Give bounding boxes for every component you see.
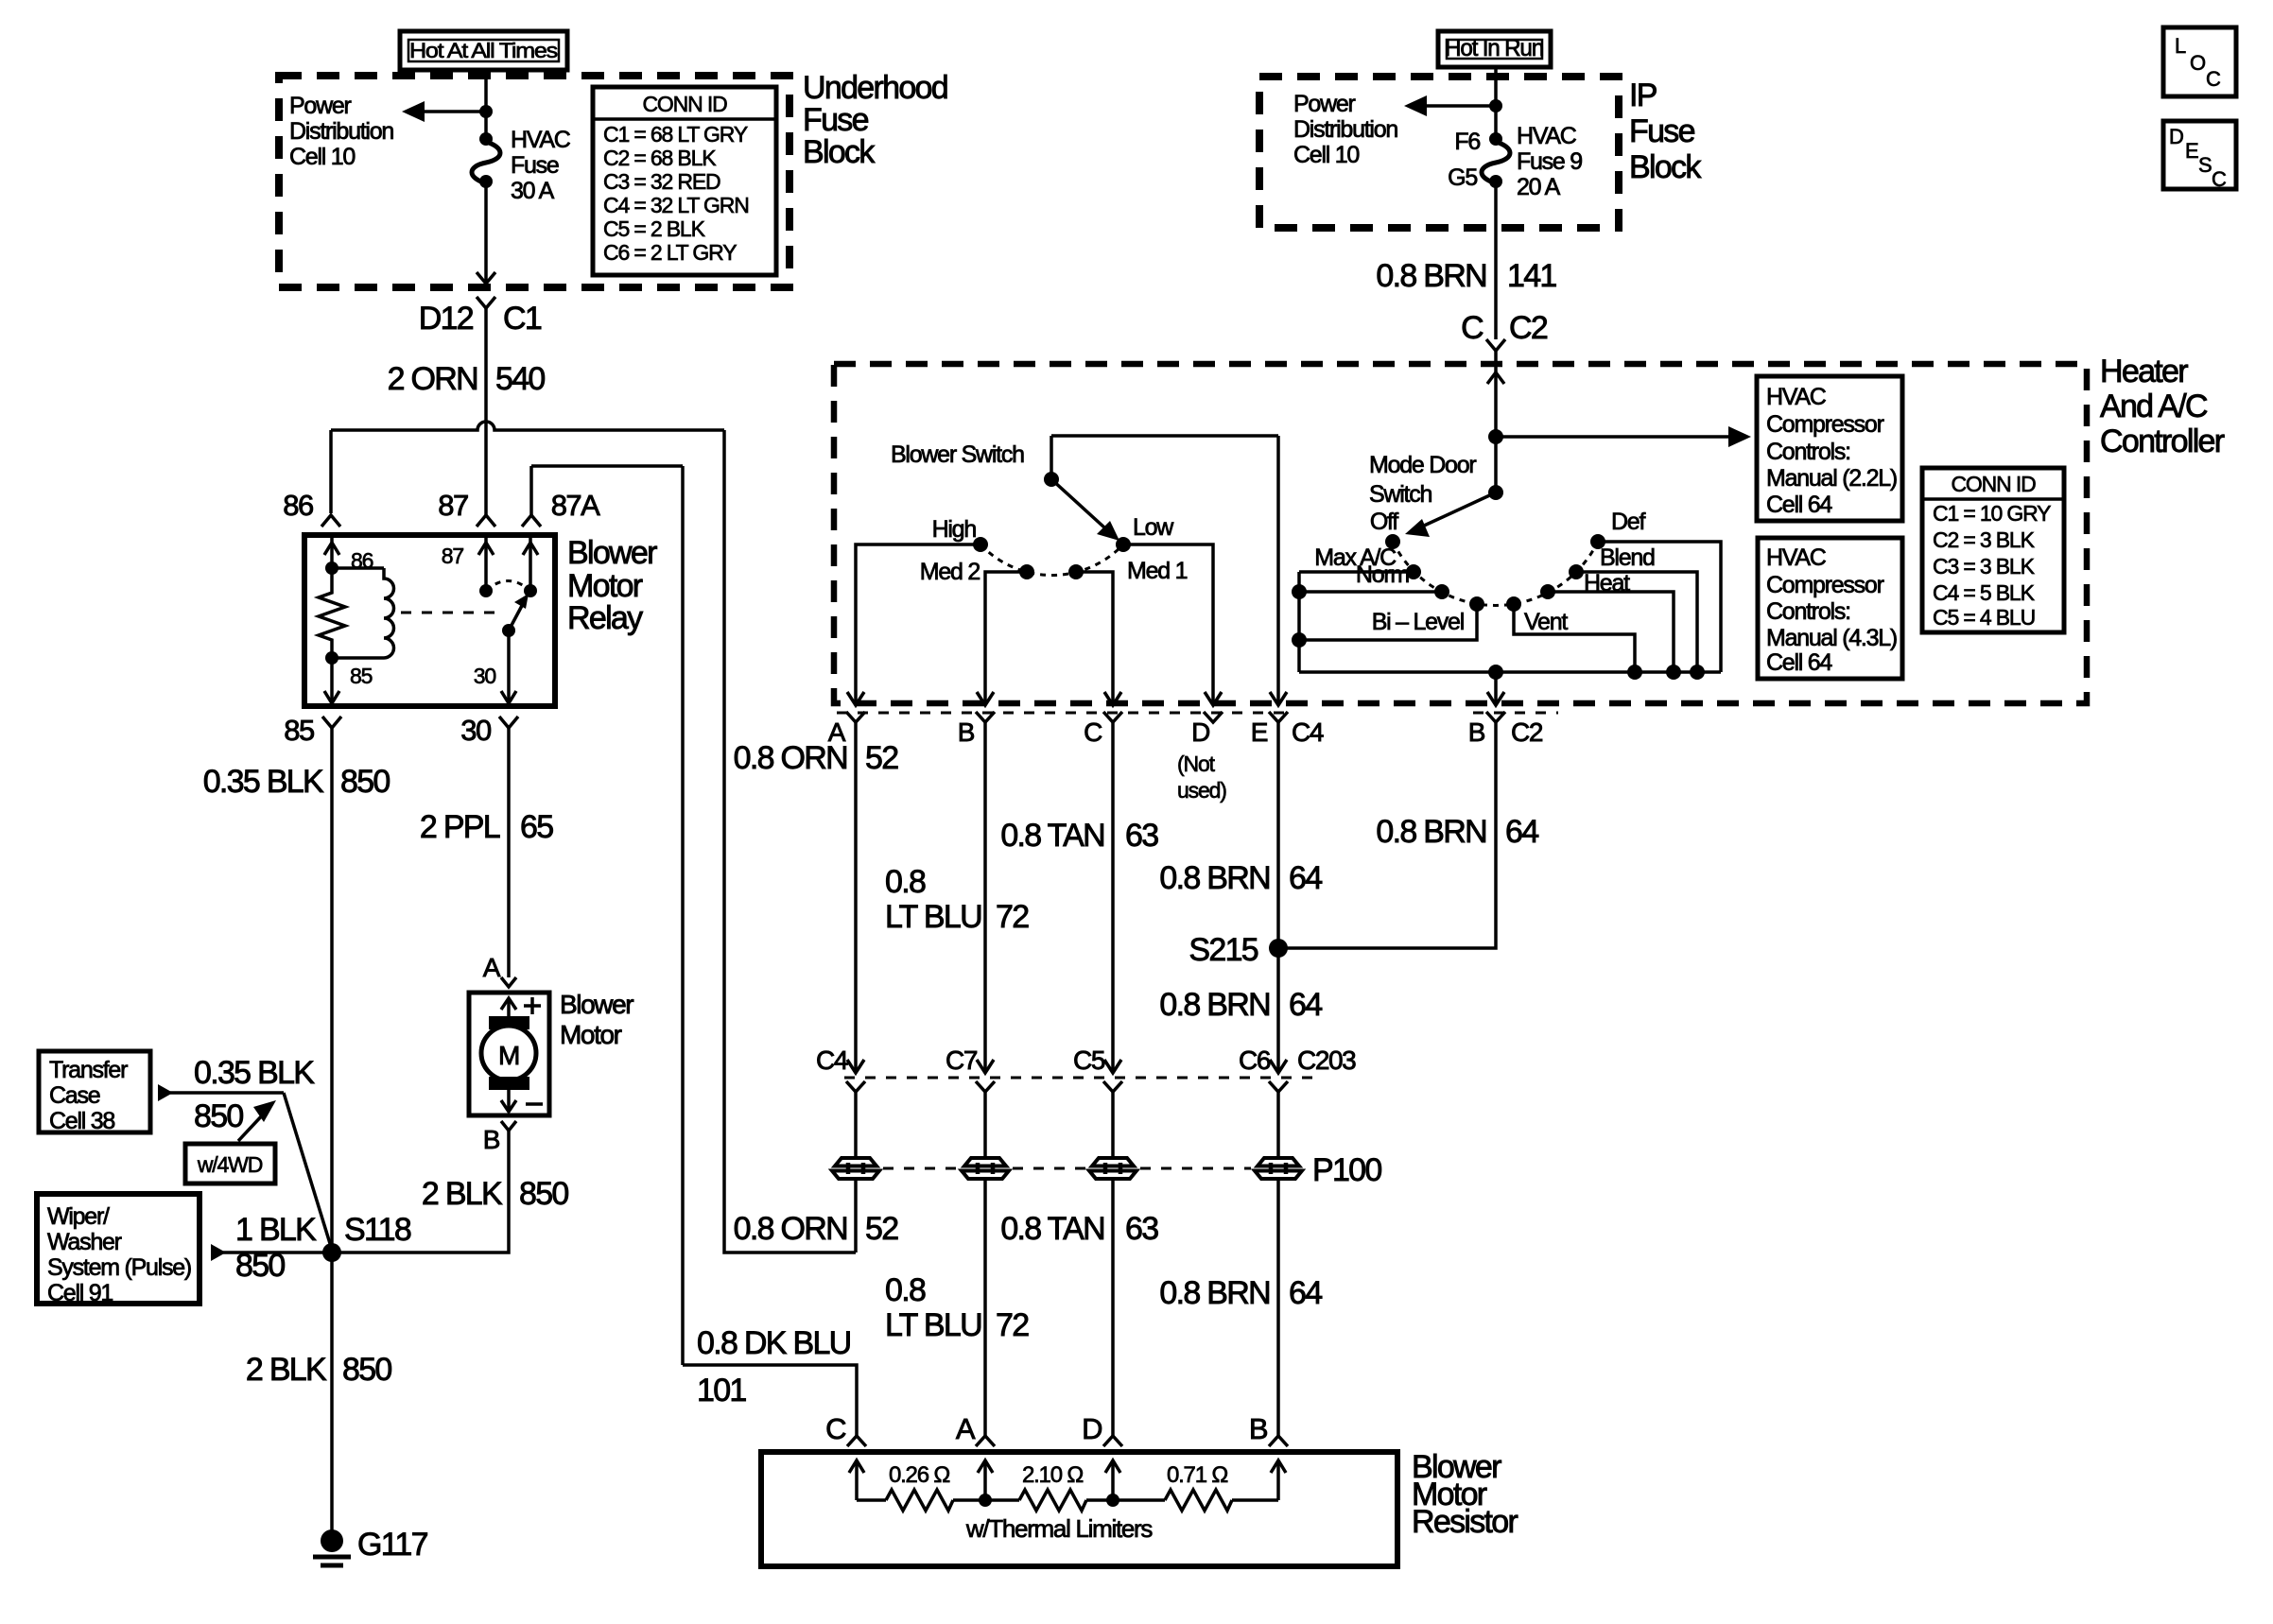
heater and A/C controller dashed box	[834, 364, 2087, 703]
svg-text:0.8 ORN: 0.8 ORN	[734, 740, 847, 776]
blower switch contact Med 1	[1068, 564, 1084, 579]
junction dot A	[979, 1494, 992, 1507]
svg-text:Med 1: Med 1	[1127, 558, 1188, 584]
svg-text:C5 = 4 BLU: C5 = 4 BLU	[1933, 605, 2035, 630]
resistor pin D arrow	[1105, 1460, 1120, 1500]
inline connector P100 at B column	[962, 1158, 1009, 1179]
svg-text:LT BLU: LT BLU	[885, 1307, 981, 1343]
wire 2 ORN 540	[388, 308, 546, 515]
svg-text:Case: Case	[49, 1082, 100, 1109]
svg-text:850: 850	[519, 1176, 568, 1212]
svg-text:0.8 BRN: 0.8 BRN	[1159, 860, 1270, 896]
wire 2 PPL 65	[420, 728, 553, 977]
svg-text:0.8 TAN: 0.8 TAN	[1000, 818, 1104, 854]
svg-text:0.8 BRN: 0.8 BRN	[1159, 1275, 1270, 1311]
svg-text:Motor: Motor	[560, 1020, 622, 1049]
motor minus terminal	[501, 1090, 543, 1112]
fuse F HVAC 30A	[472, 127, 571, 204]
wire 0.35 BLK 850	[203, 728, 390, 1253]
svg-text:C2 = 68 BLK: C2 = 68 BLK	[603, 146, 717, 170]
mode door contact Bi-Level	[1469, 596, 1484, 612]
relay pin 85 stub	[324, 651, 373, 703]
svg-text:S215: S215	[1189, 932, 1258, 968]
svg-text:Washer: Washer	[47, 1229, 122, 1255]
svg-text:0.8 BRN: 0.8 BRN	[1376, 814, 1486, 850]
wire 0.8 TAN 63 from pin C	[1000, 722, 1158, 1071]
svg-text:C4: C4	[1292, 717, 1324, 747]
blower switch contact Med 2	[1019, 564, 1034, 579]
wire fuse to connector D12	[477, 181, 495, 284]
svg-text:Def: Def	[1611, 509, 1645, 535]
svg-text:A: A	[483, 953, 501, 982]
wire down to relay pin 86	[329, 430, 333, 513]
relay pin 30 stub	[474, 631, 516, 703]
svg-text:Med 2: Med 2	[920, 559, 980, 585]
svg-text:Hot In Run: Hot In Run	[1445, 35, 1543, 61]
mode door dashed arc	[1393, 542, 1598, 605]
label Blower Motor	[560, 990, 633, 1049]
svg-text:B: B	[1468, 717, 1485, 747]
wire Med 2 to pin B	[977, 572, 1027, 705]
svg-text:72: 72	[996, 899, 1029, 935]
transfer case box	[39, 1051, 150, 1134]
blower switch dashed arc	[980, 544, 1123, 575]
svg-text:Distribution: Distribution	[1293, 116, 1397, 143]
mode door contact Heat	[1540, 584, 1555, 599]
wire E column below P100 to resistor B	[1159, 1179, 1322, 1437]
svg-text:63: 63	[1125, 1211, 1158, 1247]
svg-text:B: B	[483, 1125, 500, 1154]
mode door contact Vent	[1506, 596, 1521, 612]
connector C4 thin dashed line	[837, 712, 1293, 715]
connector chevron below relay 30	[499, 717, 518, 728]
svg-text:C6 = 2 LT GRY: C6 = 2 LT GRY	[603, 240, 737, 265]
wire B column below P100 to resistor A	[885, 1179, 1029, 1437]
svg-text:Controls:: Controls:	[1766, 439, 1850, 465]
label Heater And A/C Controller	[2100, 354, 2225, 459]
blower switch rotor blade	[1044, 472, 1119, 541]
svg-text:30: 30	[460, 714, 492, 747]
mode door left rail	[1297, 572, 1301, 672]
ground G117	[313, 1527, 428, 1565]
svg-text:Fuse: Fuse	[1629, 113, 1695, 149]
svg-text:87A: 87A	[551, 489, 600, 522]
LOC box	[2163, 27, 2236, 96]
svg-text:Resistor: Resistor	[1412, 1504, 1518, 1540]
svg-text:C: C	[2212, 167, 2227, 191]
svg-text:C3 = 32 RED: C3 = 32 RED	[603, 169, 720, 194]
svg-text:(Not: (Not	[1177, 752, 1216, 776]
svg-text:C203: C203	[1297, 1045, 1356, 1075]
svg-text:High: High	[932, 516, 977, 543]
svg-text:C1 = 10 GRY: C1 = 10 GRY	[1933, 501, 2051, 526]
relay coil resistor	[319, 568, 345, 658]
svg-text:Compressor: Compressor	[1766, 411, 1884, 438]
svg-text:HVAC: HVAC	[1517, 123, 1577, 149]
svg-text:C2: C2	[1509, 310, 1548, 346]
wire Bi-Level to rail	[1292, 604, 1477, 648]
connector chevron motor B	[501, 1121, 516, 1131]
svg-text:Wiper/: Wiper/	[47, 1203, 110, 1230]
wire 0.35 BLK 850 from transfer case	[158, 1055, 332, 1250]
svg-text:Blend: Blend	[1600, 544, 1655, 571]
svg-text:C4: C4	[816, 1045, 848, 1075]
svg-text:C6: C6	[1239, 1045, 1271, 1075]
svg-text:Cell 91: Cell 91	[47, 1280, 113, 1306]
connector C C2	[1461, 310, 1548, 437]
svg-text:IP: IP	[1629, 78, 1657, 113]
inline connector P100 at A column	[832, 1158, 879, 1179]
svg-text:C: C	[1084, 717, 1102, 747]
svg-text:0.8 DK BLU: 0.8 DK BLU	[697, 1325, 851, 1361]
svg-text:63: 63	[1125, 818, 1158, 854]
wire 0.8 BRN 64 from pin B C2 to S215	[1278, 722, 1538, 948]
svg-text:Off: Off	[1370, 509, 1398, 535]
svg-text:C5: C5	[1073, 1045, 1105, 1075]
svg-text:850: 850	[194, 1098, 243, 1134]
resistor element 2.10 ohm	[985, 1462, 1113, 1511]
mode door rotor blade	[1405, 485, 1503, 537]
connector chevron below relay 85	[322, 717, 341, 728]
pin D bracket	[1204, 712, 1223, 722]
svg-text:1 BLK: 1 BLK	[235, 1212, 317, 1248]
svg-text:20 A: 20 A	[1517, 174, 1561, 200]
motor commutator bottom	[489, 1077, 529, 1090]
svg-text:C2 = 3 BLK: C2 = 3 BLK	[1933, 527, 2036, 552]
connector chevron motor A	[501, 977, 516, 987]
svg-text:87: 87	[438, 489, 468, 522]
wire High to pin A	[847, 544, 980, 705]
connector C5 arrow and bracket	[1073, 1045, 1122, 1159]
wire Norm to rail	[1292, 584, 1442, 599]
svg-text:0.26 Ω: 0.26 Ω	[889, 1462, 949, 1488]
resistor element 0.71 ohm	[1113, 1462, 1278, 1511]
power label Hot In Run	[1438, 31, 1551, 67]
svg-text:0.35 BLK: 0.35 BLK	[194, 1055, 315, 1091]
mode door contact Def	[1590, 534, 1605, 549]
svg-text:Fuse: Fuse	[803, 102, 869, 138]
svg-text:C1: C1	[503, 301, 542, 337]
blower motor resistor box	[761, 1452, 1397, 1566]
svg-text:Mode Door: Mode Door	[1369, 452, 1476, 478]
wire Blend to bus	[1576, 572, 1705, 680]
connector chevron relay 87A	[522, 515, 541, 527]
svg-text:65: 65	[520, 809, 553, 845]
junction dot D	[1106, 1494, 1119, 1507]
wire 87A up and over	[531, 466, 683, 1365]
svg-text:Power: Power	[1293, 91, 1356, 117]
svg-text:C4 = 5 BLK: C4 = 5 BLK	[1933, 580, 2036, 605]
svg-text:B: B	[958, 717, 975, 747]
svg-text:0.8 ORN: 0.8 ORN	[734, 1211, 847, 1247]
svg-text:Cell 64: Cell 64	[1766, 649, 1832, 676]
svg-text:CONN ID: CONN ID	[1951, 472, 2036, 496]
wire 0.8 BRN 141	[1376, 181, 1556, 339]
wire from Hot At All Times to fuse	[484, 70, 488, 139]
connector chevron resistor D	[1103, 1436, 1122, 1446]
wire Low to pin D	[1123, 544, 1222, 705]
wire bus to pin B	[1487, 665, 1504, 705]
svg-text:HVAC: HVAC	[511, 127, 571, 153]
svg-text:used): used)	[1177, 778, 1226, 803]
svg-text:C7: C7	[946, 1045, 978, 1075]
svg-text:2 BLK: 2 BLK	[422, 1176, 503, 1212]
svg-text:O: O	[2190, 51, 2206, 75]
svg-text:D12: D12	[419, 301, 474, 337]
svg-text:Cell 64: Cell 64	[1766, 492, 1832, 518]
svg-text:850: 850	[340, 764, 390, 800]
svg-text:Block: Block	[1629, 149, 1702, 185]
svg-text:72: 72	[996, 1307, 1029, 1343]
relay switch blade	[502, 594, 529, 637]
svg-text:Blower: Blower	[567, 535, 657, 571]
svg-text:D: D	[1191, 717, 1209, 747]
HVAC compressor controls 2.2L box	[1757, 376, 1902, 521]
wire mode door feed and HVAC branch	[1488, 426, 1751, 492]
connector D12 C1	[419, 297, 542, 337]
svg-text:0.71 Ω: 0.71 Ω	[1167, 1462, 1227, 1488]
wire 0.8 BRN 64 from pin E	[1159, 722, 1322, 1071]
svg-text:0.35 BLK: 0.35 BLK	[203, 764, 324, 800]
svg-text:G117: G117	[357, 1527, 428, 1563]
svg-text:S118: S118	[344, 1212, 411, 1248]
svg-text:Cell 10: Cell 10	[289, 144, 355, 170]
svg-text:w/Thermal Limiters: w/Thermal Limiters	[965, 1514, 1153, 1543]
svg-text:C: C	[2206, 67, 2221, 91]
svg-text:Manual (4.3L): Manual (4.3L)	[1766, 625, 1897, 651]
relay pin 87A stub	[523, 537, 538, 597]
svg-text:C1 = 68 LT GRY: C1 = 68 LT GRY	[603, 122, 748, 147]
relay pin 87 stub	[442, 537, 494, 597]
svg-text:Controller: Controller	[2100, 423, 2225, 459]
svg-text:Hot At All Times: Hot At All Times	[409, 39, 558, 62]
svg-text:Blower Switch: Blower Switch	[891, 441, 1024, 468]
wire Med 1 to pin C	[1076, 572, 1121, 705]
node Power Distribution Cell 10	[289, 93, 393, 170]
wiper washer box	[37, 1194, 200, 1306]
svg-text:S: S	[2198, 153, 2212, 177]
svg-text:E: E	[2185, 139, 2198, 163]
svg-text:87: 87	[442, 544, 464, 568]
svg-text:C: C	[825, 1412, 846, 1445]
svg-text:0.8 BRN: 0.8 BRN	[1159, 987, 1270, 1023]
svg-text:64: 64	[1289, 860, 1322, 896]
label Mode Door Switch	[1369, 452, 1476, 508]
svg-text:101: 101	[697, 1373, 746, 1408]
wire Def to bus	[1598, 542, 1721, 672]
svg-text:C2: C2	[1511, 717, 1543, 747]
mode door bottom bus	[1299, 670, 1721, 674]
svg-text:Fuse: Fuse	[511, 152, 559, 179]
svg-text:E: E	[1251, 717, 1268, 747]
mode door contact Off	[1385, 534, 1400, 549]
inline connector P100 at C column	[1089, 1158, 1136, 1179]
relay K Blower Motor Relay box	[304, 535, 555, 706]
svg-text:Block: Block	[803, 134, 876, 170]
svg-text:Vent: Vent	[1524, 609, 1568, 635]
svg-text:B: B	[1249, 1412, 1268, 1445]
connector chevron relay 86	[321, 515, 340, 527]
svg-text:C3 = 3 BLK: C3 = 3 BLK	[1933, 554, 2036, 579]
wire A column below P100 to orn corner	[724, 430, 898, 1253]
resistor pin A arrow	[978, 1460, 993, 1500]
svg-text:And A/C: And A/C	[2100, 389, 2208, 424]
connector C7 arrow and bracket	[946, 1045, 995, 1159]
w/4WD tag	[185, 1100, 276, 1183]
wire 0.8 ORN 52 from pin A	[734, 722, 899, 1071]
svg-text:30 A: 30 A	[511, 178, 555, 204]
conn id table heater	[1922, 468, 2064, 632]
connector row C203 dashed line	[844, 1077, 1322, 1080]
wire 0.8 LT BLU 72 from pin B	[885, 722, 1029, 1071]
svg-text:Underhood: Underhood	[803, 70, 947, 106]
svg-text:Switch: Switch	[1369, 481, 1431, 508]
svg-text:A: A	[956, 1412, 976, 1445]
svg-text:C5 = 2 BLK: C5 = 2 BLK	[603, 216, 706, 241]
pin E bracket	[1269, 712, 1288, 722]
splice S118	[322, 1212, 411, 1262]
svg-text:540: 540	[495, 361, 545, 397]
power label Hot At All Times	[400, 31, 567, 70]
svg-text:0.8: 0.8	[885, 1272, 926, 1308]
relay pin 86 stub	[324, 537, 373, 575]
wire Vent to bus	[1514, 604, 1642, 680]
IP fuse block dashed box	[1259, 77, 1619, 228]
svg-text:0.8: 0.8	[885, 864, 926, 900]
wire 0.8 DK BLU 101	[683, 1325, 857, 1437]
svg-text:F6: F6	[1454, 129, 1480, 155]
svg-text:Compressor: Compressor	[1766, 572, 1884, 598]
svg-text:Manual (2.2L): Manual (2.2L)	[1766, 465, 1897, 492]
svg-text:Heater: Heater	[2100, 354, 2188, 389]
svg-text:2 ORN: 2 ORN	[388, 361, 477, 397]
pin B bracket	[976, 712, 995, 722]
motor plus terminal	[501, 997, 541, 1016]
svg-text:Motor: Motor	[567, 568, 643, 604]
wire horizontal with hop to relay 86 and coil feed	[331, 422, 724, 430]
node Power Distribution Cell 10 (IP)	[1293, 91, 1397, 168]
relay coil	[332, 568, 394, 658]
label Underhood Fuse Block	[803, 70, 947, 170]
svg-text:M: M	[498, 1041, 519, 1070]
wire Max A/C to rail	[1299, 570, 1414, 574]
svg-text:Power: Power	[289, 93, 352, 119]
svg-text:Low: Low	[1133, 514, 1174, 541]
svg-text:Distribution: Distribution	[289, 118, 393, 145]
svg-text:64: 64	[1289, 987, 1322, 1023]
svg-text:Norm: Norm	[1356, 561, 1410, 588]
resistor pin B arrow	[1271, 1460, 1286, 1500]
wire 2 BLK 850 from motor B	[332, 1131, 568, 1253]
resistor pin C arrow	[849, 1460, 864, 1500]
conn id table underhood	[593, 87, 776, 275]
svg-text:HVAC: HVAC	[1766, 384, 1827, 410]
svg-text:D: D	[1082, 1412, 1102, 1445]
wire Heat to bus	[1548, 592, 1681, 680]
svg-text:LT BLU: LT BLU	[885, 899, 981, 935]
svg-text:Cell 38: Cell 38	[49, 1108, 114, 1134]
fuse HVAC Fuse 9 20A	[1482, 123, 1582, 200]
svg-text:G5: G5	[1448, 164, 1477, 191]
relay contact dashed arc	[486, 581, 530, 592]
relay linkage dashed line	[401, 612, 501, 614]
blower switch feed wire	[1051, 436, 1287, 705]
wire 1 BLK 850 from wiper	[211, 1212, 332, 1284]
svg-text:D: D	[2169, 125, 2183, 148]
connector C2 thin dashed line	[1473, 712, 1558, 715]
svg-text:C: C	[1461, 310, 1484, 346]
svg-text:850: 850	[235, 1248, 285, 1284]
connector C6 C203 arrow and bracket	[1239, 1045, 1356, 1159]
svg-text:850: 850	[342, 1352, 391, 1388]
pin A bracket	[846, 712, 865, 722]
svg-text:64: 64	[1505, 814, 1538, 850]
label (Not used)	[1177, 752, 1226, 803]
svg-text:System (Pulse): System (Pulse)	[47, 1254, 191, 1281]
mode door contact Norm	[1434, 584, 1449, 599]
svg-text:Blower: Blower	[560, 990, 633, 1019]
svg-text:P100: P100	[1312, 1152, 1381, 1188]
svg-text:HVAC: HVAC	[1766, 544, 1827, 571]
svg-text:30: 30	[474, 664, 496, 688]
svg-text:85: 85	[284, 714, 314, 747]
connector chevron relay 87	[477, 515, 495, 527]
motor commutator top	[489, 1016, 529, 1029]
blower motor M box	[469, 993, 549, 1115]
svg-text:Controls:: Controls:	[1766, 598, 1850, 625]
wire C column below P100 to resistor D	[1000, 1179, 1158, 1437]
label Blower Motor Relay	[567, 535, 657, 636]
svg-text:CONN ID: CONN ID	[642, 92, 727, 116]
svg-text:Cell 10: Cell 10	[1293, 142, 1359, 168]
wire 2 BLK 850 to ground	[246, 1253, 392, 1533]
svg-text:Relay: Relay	[567, 600, 643, 636]
svg-text:0.8 TAN: 0.8 TAN	[1000, 1211, 1104, 1247]
svg-text:52: 52	[865, 740, 898, 776]
svg-text:52: 52	[865, 1211, 898, 1247]
svg-text:L: L	[2175, 34, 2186, 58]
svg-text:2 PPL: 2 PPL	[420, 809, 500, 845]
svg-text:Transfer: Transfer	[49, 1057, 128, 1083]
svg-text:86: 86	[283, 489, 313, 522]
svg-text:Bi – Level: Bi – Level	[1372, 609, 1464, 635]
mode door contact Blend	[1569, 564, 1584, 579]
inline connector P100 at E column	[1255, 1158, 1302, 1179]
svg-text:2.10 Ω: 2.10 Ω	[1022, 1462, 1083, 1488]
connector chevron resistor C	[847, 1436, 866, 1446]
svg-text:85: 85	[350, 664, 373, 688]
label Blower Motor Resistor	[1412, 1449, 1518, 1540]
underhood fuse block dashed box	[279, 76, 789, 287]
P100 dashed links	[883, 1167, 958, 1170]
splice S215	[1189, 932, 1288, 968]
svg-text:C4 = 32 LT GRN: C4 = 32 LT GRN	[603, 193, 749, 217]
svg-text:0.8 BRN: 0.8 BRN	[1376, 258, 1486, 294]
svg-text:w/4WD: w/4WD	[197, 1152, 263, 1177]
wire arrow to power distribution (IP)	[1404, 95, 1502, 116]
label IP Fuse Block	[1629, 78, 1702, 185]
connector chevron resistor B	[1269, 1436, 1288, 1446]
wire arrow to power distribution	[402, 101, 493, 122]
mode door contact Max A/C	[1406, 564, 1421, 579]
svg-text:2 BLK: 2 BLK	[246, 1352, 327, 1388]
wire from Hot In Run to fuse	[1494, 67, 1498, 139]
svg-text:141: 141	[1507, 258, 1556, 294]
HVAC compressor controls 4.3L box	[1758, 538, 1902, 679]
pin B C2 bracket	[1486, 712, 1505, 722]
pin C bracket	[1103, 712, 1122, 722]
blower switch contact Low	[1116, 537, 1131, 552]
